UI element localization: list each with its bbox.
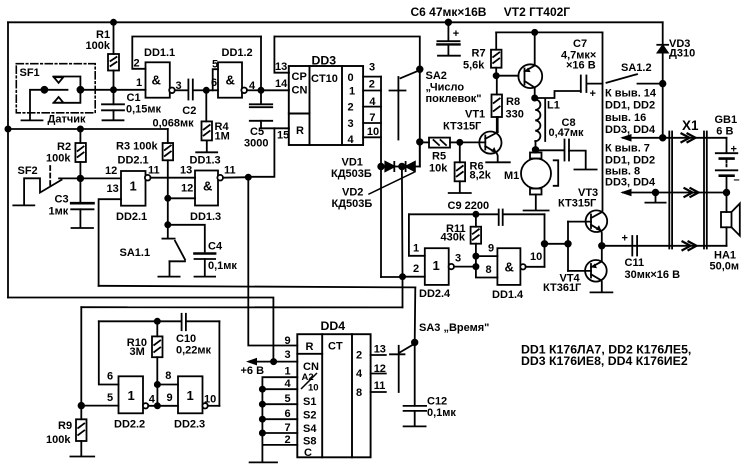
svg-text:C1: C1 — [127, 92, 141, 104]
svg-text:14: 14 — [275, 78, 288, 90]
svg-text:0,1мк: 0,1мк — [427, 407, 456, 419]
node drive tee — [542, 241, 548, 247]
switch SF2 — [24, 178, 119, 204]
op-amp gate DD1.3 — [195, 171, 218, 206]
ground C8 — [574, 169, 596, 171]
wire SF1 output to DD1.1 pin1 — [80, 89, 145, 91]
svg-text:1М: 1М — [215, 131, 230, 143]
svg-text:КД503Б: КД503Б — [332, 198, 373, 210]
wire DD1.4 pin8 wrap — [476, 256, 498, 277]
wire osc feedback line L321 — [99, 320, 220, 322]
svg-text:11: 11 — [148, 165, 160, 177]
wire pin6 vertical — [99, 321, 119, 384]
resistor R5 — [420, 138, 460, 148]
svg-text:&: & — [505, 260, 514, 275]
svg-text:2: 2 — [369, 79, 375, 91]
svg-text:2: 2 — [285, 434, 291, 446]
capacitor C10 — [182, 314, 186, 330]
svg-text:C9 2200: C9 2200 — [448, 200, 490, 212]
node R2 bottom C3 — [78, 176, 84, 182]
node DD1.1 output bubble — [169, 88, 175, 94]
capacitor C4 — [168, 225, 215, 276]
wire DD1.2 pin5 tie — [213, 69, 218, 90]
wire VD center to DD2.4 pin2 net — [401, 167, 404, 308]
svg-text:2: 2 — [413, 263, 419, 275]
node R10 top — [155, 319, 160, 324]
wire DD1.2 out junction — [247, 89, 261, 91]
svg-text:3: 3 — [348, 118, 354, 130]
wire DD2.2 pin5 — [81, 405, 118, 407]
wire C2 to DD1.2 pin6 — [206, 89, 218, 91]
node R5 R6 VT1 base — [457, 140, 462, 145]
svg-text:DD1.3: DD1.3 — [190, 155, 221, 167]
op-amp gate DD1.4 — [497, 248, 520, 285]
svg-text:„Число: „Число — [426, 82, 465, 94]
svg-text:13: 13 — [275, 61, 287, 73]
ground R4 — [196, 151, 217, 153]
svg-text:DD3 К176ИЕ8, DD4 К176ИЕ2: DD3 К176ИЕ8, DD4 К176ИЕ2 — [521, 354, 688, 368]
ground wire2 — [645, 193, 665, 203]
capacitor C8 — [536, 140, 586, 169]
node osc mid junction — [155, 403, 160, 408]
svg-text:12: 12 — [374, 363, 386, 375]
node SA2 common — [417, 66, 423, 72]
op-amp gate DD2.4 — [425, 248, 449, 285]
node wire2 stub — [653, 190, 659, 196]
resistor R4 — [202, 90, 213, 151]
wire VD2 to R5 — [419, 142, 421, 167]
op-amp gate DD1.2 — [218, 62, 242, 97]
ground C4 — [195, 276, 216, 278]
node S4 tie — [260, 417, 265, 422]
switch SF1 upper triangle contact — [54, 77, 64, 83]
wire CP line to SA2 — [274, 37, 419, 167]
svg-text:11: 11 — [224, 165, 236, 177]
wire C10 right to DD2.3 out — [218, 321, 220, 406]
svg-text:4: 4 — [348, 134, 355, 146]
svg-text:430k: 430k — [441, 232, 466, 244]
svg-text:+: + — [731, 144, 737, 156]
capacitor C9 — [409, 210, 545, 226]
node pin8 junction — [155, 382, 160, 387]
svg-text:C12: C12 — [427, 396, 447, 408]
slash A2-10 DD4 — [301, 373, 317, 389]
svg-text:S2: S2 — [303, 410, 316, 422]
svg-text:+: + — [590, 88, 596, 100]
node SA1.1 branch — [165, 222, 170, 227]
op-amp gate DD2.3 — [178, 376, 203, 413]
svg-text:DD1, DD2: DD1, DD2 — [605, 154, 655, 166]
svg-text:C: C — [304, 447, 312, 459]
resistor R7 — [491, 32, 502, 75]
arrow wire1 left — [620, 134, 631, 142]
svg-text:9: 9 — [285, 335, 291, 347]
wire DD2.1 pin13 — [99, 199, 121, 286]
svg-text:1: 1 — [128, 388, 135, 403]
svg-text:С6 47мк×16В: С6 47мк×16В — [411, 5, 487, 19]
svg-text:SA2: SA2 — [426, 70, 447, 82]
svg-text:CT10: CT10 — [311, 73, 338, 85]
svg-text:CN: CN — [292, 85, 308, 97]
svg-text:CP: CP — [292, 71, 307, 83]
node DD2.4 pin2 junction — [400, 274, 405, 279]
svg-text:4: 4 — [285, 378, 292, 390]
node M1 top C8 — [533, 147, 539, 153]
svg-text:DD4: DD4 — [321, 319, 346, 333]
resistor R9 — [76, 406, 87, 456]
wire DD3 pin13 — [274, 37, 289, 73]
svg-text:С7: С7 — [573, 38, 587, 50]
node R11 top — [473, 212, 478, 217]
wire VT1 emitter — [497, 153, 498, 161]
svg-text:VD2: VD2 — [342, 187, 363, 199]
wire supply X1 wire1 — [623, 137, 727, 139]
node VD3 wire1 — [660, 135, 666, 141]
svg-text:3: 3 — [285, 349, 291, 361]
svg-text:4: 4 — [249, 80, 256, 92]
speaker HA1 — [721, 193, 740, 246]
svg-text:DD3: DD3 — [312, 54, 337, 68]
ground R9 — [70, 456, 94, 458]
switch SA2 selected contact vertical — [380, 77, 382, 167]
svg-text:C11: C11 — [625, 257, 645, 269]
wire SA3 common vertical — [414, 287, 417, 405]
svg-text:100k: 100k — [86, 40, 111, 52]
svg-text:S4: S4 — [303, 423, 317, 435]
transistor VT1 — [479, 132, 501, 154]
wire DD2.2 out to DD2.3 — [148, 405, 178, 407]
resistor R3 — [163, 129, 174, 160]
wire left border rail — [7, 22, 9, 297]
wire DD1.3 out to DD4 pin9 — [248, 177, 297, 345]
switch SA3 contact tick — [390, 353, 405, 355]
ground C1 — [103, 119, 124, 121]
node SF1 left — [41, 87, 47, 93]
capacitor C5 — [250, 104, 272, 128]
svg-text:&: & — [152, 73, 161, 88]
resistor R1 — [108, 22, 119, 90]
resistor R2 — [75, 129, 86, 178]
node DD1.2 out C5 — [258, 88, 263, 93]
svg-text:7: 7 — [369, 112, 375, 124]
svg-text:2: 2 — [356, 350, 362, 362]
wire VT2 collector — [534, 88, 536, 100]
svg-text:К выв. 7: К выв. 7 — [605, 143, 650, 155]
wire C5 vertical — [260, 37, 262, 105]
svg-text:Д310: Д310 — [669, 48, 695, 60]
core line L1 — [544, 100, 546, 142]
node SA1.2 right — [660, 81, 666, 87]
wire L307 left vertical — [80, 307, 82, 405]
svg-text:SA1.2: SA1.2 — [621, 62, 652, 74]
wire DD2.1 out to DD1.3 pin13 — [151, 177, 196, 179]
svg-text:R8: R8 — [506, 96, 520, 108]
svg-text:3: 3 — [455, 253, 461, 265]
node R3 bottom pin12 — [165, 196, 170, 201]
wire R10 to pin8 — [157, 385, 178, 406]
node R5 left — [417, 139, 423, 145]
ground C6 — [438, 55, 460, 57]
node R11 bottom pin9 — [473, 254, 478, 259]
wire VT2 base — [496, 75, 518, 77]
wire DD2.4 pin2 — [381, 167, 425, 278]
ground VT4 — [591, 291, 613, 293]
node DD2.1 output bubble — [145, 175, 151, 181]
node DD1.2 output bubble — [241, 88, 247, 94]
svg-text:5: 5 — [212, 59, 218, 71]
wire DD4 pin1 tie chain — [262, 377, 297, 445]
node DD2.4 out tee — [473, 264, 478, 269]
svg-text:DD2.4: DD2.4 — [419, 288, 451, 300]
wire driver supply line — [496, 31, 602, 33]
diode VD1 — [385, 162, 394, 171]
wire output X1 wire3 — [602, 245, 727, 247]
wire C5 to DD3 pin15 and DD1.3 out — [248, 128, 289, 177]
svg-text:13: 13 — [107, 183, 119, 195]
capacitor C2 — [188, 80, 206, 100]
svg-text:0: 0 — [348, 72, 354, 84]
svg-text:S8: S8 — [303, 436, 316, 448]
capacitor C6 — [437, 22, 459, 54]
bracket M1 terminal — [554, 160, 559, 186]
svg-text:КТ315Г: КТ315Г — [558, 198, 597, 210]
svg-text:6: 6 — [285, 408, 291, 420]
svg-text:КТ315Г: КТ315Г — [443, 121, 482, 133]
svg-text:&: & — [226, 73, 235, 88]
ground SA1.1 — [158, 276, 179, 278]
diode VD2 — [405, 162, 407, 171]
battery GB1 dotted middle — [726, 161, 728, 169]
ground VT1 — [486, 161, 510, 163]
svg-text:100k: 100k — [46, 434, 71, 446]
capacitor C3 — [71, 178, 93, 227]
svg-text:DD2.2: DD2.2 — [114, 419, 145, 431]
svg-text:DD3, DD4: DD3, DD4 — [605, 177, 656, 189]
svg-text:R: R — [296, 125, 304, 137]
svg-text:4: 4 — [356, 368, 363, 380]
svg-text:DD1.1: DD1.1 — [144, 47, 175, 59]
wire VT3 VT4 base tie — [568, 222, 591, 271]
svg-text:100k: 100k — [46, 153, 71, 165]
node SF1 right — [77, 87, 83, 93]
svg-text:12: 12 — [105, 165, 117, 177]
svg-text:3: 3 — [369, 62, 375, 74]
ground R6 — [449, 192, 471, 194]
svg-text:+6 В: +6 В — [241, 365, 265, 377]
svg-text:VD1: VD1 — [342, 157, 363, 169]
svg-text:4: 4 — [369, 96, 376, 108]
svg-text:10k: 10k — [429, 163, 448, 175]
node C2 R4 junction — [204, 88, 209, 93]
ground DD4 — [250, 445, 277, 463]
svg-text:5: 5 — [285, 393, 291, 405]
switch SF1 lower triangle contact — [54, 97, 64, 103]
resistor R11 — [471, 214, 482, 256]
svg-text:1: 1 — [285, 366, 291, 378]
svg-text:1мк: 1мк — [49, 206, 69, 218]
wire DD2.4 out — [454, 266, 476, 268]
node VD1 anode — [378, 164, 384, 170]
wire DD1.3 out — [223, 176, 248, 179]
node SA3 common — [412, 340, 418, 346]
node C7 tap — [532, 95, 537, 100]
svg-text:DD1.2: DD1.2 — [222, 47, 253, 59]
svg-text:10: 10 — [308, 383, 319, 394]
svg-text:6 В: 6 В — [716, 126, 733, 138]
node S8 tie — [260, 430, 265, 435]
svg-text:GB1: GB1 — [715, 114, 738, 126]
arrow wire2 X1 chevrons — [685, 188, 699, 197]
switch SA1.1 — [162, 225, 174, 239]
node rail at border — [5, 126, 10, 131]
node DD2.2 output bubble — [143, 403, 148, 408]
svg-text:6: 6 — [211, 77, 217, 89]
switch SA3 pole line — [398, 346, 400, 392]
ground C12 — [404, 425, 426, 427]
resistor R6 — [455, 142, 466, 192]
svg-text:11: 11 — [374, 380, 386, 392]
svg-text:R2: R2 — [57, 141, 71, 153]
svg-text:8,2k: 8,2k — [470, 170, 492, 182]
svg-text:1: 1 — [349, 86, 355, 98]
svg-text:C10: C10 — [176, 333, 196, 345]
node S1 tie — [260, 387, 265, 392]
svg-text:Датчик: Датчик — [48, 114, 86, 126]
wire supply corner to SA1.2 — [602, 32, 604, 210]
op-amp gate DD2.2 — [119, 376, 144, 413]
svg-text:1: 1 — [136, 77, 142, 89]
svg-text:КД503Б: КД503Б — [331, 168, 372, 180]
wire DD2.3 out — [208, 405, 220, 407]
ground C3 — [72, 227, 94, 229]
node +6V junction at DD4 pin3 — [271, 359, 276, 364]
node base drive — [565, 241, 571, 247]
svg-text:К выв. 14: К выв. 14 — [605, 88, 657, 100]
svg-text:10: 10 — [204, 394, 216, 406]
node DD2.3 output bubble — [202, 403, 207, 408]
node DD2.4 output bubble — [449, 264, 454, 269]
transistor VT3 — [586, 210, 608, 232]
svg-text:С3: С3 — [55, 194, 69, 206]
svg-text:C2: C2 — [182, 105, 196, 117]
svg-text:0,15мк: 0,15мк — [126, 104, 162, 116]
svg-text:R7: R7 — [472, 48, 486, 60]
svg-text:2: 2 — [134, 58, 140, 70]
wire DD1.3 pin12 — [168, 197, 195, 199]
svg-text:2: 2 — [348, 102, 354, 114]
svg-text:15: 15 — [277, 130, 289, 142]
svg-text:0,47мк: 0,47мк — [549, 127, 585, 139]
switch SA2 contact tick — [390, 90, 406, 92]
svg-text:50,0м: 50,0м — [710, 261, 740, 273]
svg-text:3: 3 — [176, 80, 182, 92]
svg-text:R5: R5 — [432, 151, 446, 163]
svg-text:SF1: SF1 — [20, 67, 40, 79]
wire VT3 emitter to node — [600, 231, 603, 246]
svg-text:VT2 ГТ402Г: VT2 ГТ402Г — [504, 5, 570, 19]
svg-text:КТ361Г: КТ361Г — [543, 282, 582, 294]
node R2 top — [78, 126, 83, 131]
wire top +6V rail — [8, 21, 663, 23]
svg-text:330: 330 — [506, 109, 524, 121]
resistor R10 — [152, 321, 163, 384]
svg-text:L1: L1 — [547, 100, 560, 112]
capacitor C11 — [632, 236, 637, 256]
node S2 tie — [260, 402, 265, 407]
connector X1 lines — [669, 132, 707, 249]
node VT2 emitter rail — [532, 30, 537, 35]
svg-text:1: 1 — [433, 258, 440, 273]
svg-text:10: 10 — [530, 251, 542, 263]
wire DD1.4 pin9 — [476, 255, 498, 257]
svg-text:3М: 3М — [130, 346, 145, 358]
svg-text:SA1.1: SA1.1 — [120, 247, 151, 259]
wire VT1 collector — [497, 117, 499, 132]
svg-text:DD3, DD4: DD3, DD4 — [605, 124, 656, 136]
node R1 top — [111, 20, 116, 25]
node R7 R8 VT2 base — [494, 73, 499, 78]
battery GB1 — [716, 138, 738, 193]
transistor VT2 — [518, 32, 542, 88]
capacitor C12 — [404, 406, 427, 426]
svg-text:SA3 „Время": SA3 „Время" — [419, 322, 489, 334]
svg-text:DD1.3: DD1.3 — [190, 211, 221, 223]
capacitor C1 — [102, 90, 124, 120]
svg-text:R3 100k: R3 100k — [116, 141, 158, 153]
ground SF1 — [22, 119, 43, 121]
node battery bottom — [724, 190, 730, 196]
wire DD1.1 out to C2 — [175, 89, 188, 91]
arrow wire3 X1 chevrons — [683, 242, 697, 251]
svg-text:&: & — [203, 179, 212, 194]
svg-text:0,068мк: 0,068мк — [153, 118, 195, 130]
svg-text:–: – — [734, 174, 740, 186]
wire drive from DD1.4 — [545, 243, 569, 245]
node C1 R1 junction — [111, 87, 116, 92]
svg-text:М1: М1 — [504, 170, 519, 182]
switch SA1.2 arm — [607, 74, 638, 83]
svg-text:R9: R9 — [58, 420, 72, 432]
svg-text:C5: C5 — [250, 126, 264, 138]
motor M1 — [521, 153, 551, 210]
node output push-pull — [599, 243, 605, 249]
wire SA1.2 to VD3 line — [638, 83, 663, 85]
wire R3 to SA1.1 branch — [167, 160, 169, 225]
svg-text:5: 5 — [107, 392, 113, 404]
svg-text:9: 9 — [167, 392, 173, 404]
svg-text:X1: X1 — [682, 118, 699, 133]
svg-text:CT: CT — [328, 341, 343, 353]
inductor L1 — [535, 100, 540, 142]
svg-text:DD2.1: DD2.1 — [116, 211, 147, 223]
node VD1 VD2 cathodes — [399, 164, 405, 170]
wire pullup rail R2 R3 — [8, 128, 168, 130]
svg-text:9: 9 — [488, 243, 494, 255]
svg-text:1: 1 — [130, 179, 137, 194]
svg-text:0,22мк: 0,22мк — [176, 345, 212, 357]
svg-text:C4: C4 — [208, 241, 223, 253]
counter DD3 — [289, 66, 363, 145]
svg-text:0,1мк: 0,1мк — [208, 260, 237, 272]
wire VT4 collector — [601, 280, 603, 291]
svg-text:поклевок": поклевок" — [426, 93, 482, 105]
node C6 rail — [446, 20, 452, 26]
node R9 pin5 junction — [79, 403, 85, 409]
svg-text:7: 7 — [285, 422, 291, 434]
svg-text:×16 В: ×16 В — [566, 59, 596, 71]
ground SF2 — [13, 204, 34, 206]
capacitor C7 — [535, 76, 603, 99]
